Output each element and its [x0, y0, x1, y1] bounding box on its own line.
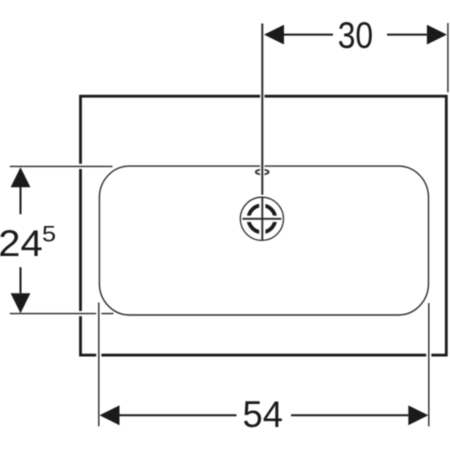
dimension 54 label — [243, 394, 283, 435]
extension line bowl left — [96, 303, 101, 427]
washbasin outer rim — [81, 96, 447, 355]
extension line rim right — [447, 23, 449, 92]
overflow slot — [256, 170, 269, 175]
svg-text:5: 5 — [42, 223, 56, 247]
dimension 30 label — [338, 16, 373, 57]
dimension 30 line — [264, 25, 447, 45]
extension line bowl right — [426, 303, 431, 426]
dimension 245 label — [0, 223, 56, 265]
extension line bowl top — [10, 164, 113, 169]
dimension 54 line — [100, 405, 429, 425]
basin bowl — [99, 166, 428, 315]
svg-text:54: 54 — [243, 394, 283, 435]
svg-text:30: 30 — [338, 16, 373, 57]
drain outlet — [240, 197, 283, 240]
centerline to drain — [260, 24, 265, 241]
svg-text:24: 24 — [0, 224, 43, 265]
dimension 245 line — [11, 167, 31, 313]
extension line bowl bottom — [10, 311, 114, 316]
